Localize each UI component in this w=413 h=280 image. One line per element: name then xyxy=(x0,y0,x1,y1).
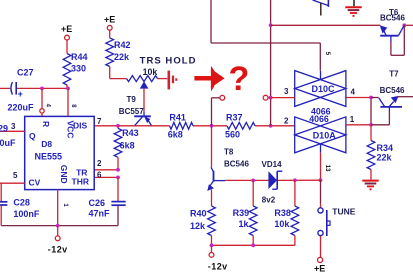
svg-text:22k: 22k xyxy=(377,153,393,163)
svg-text:BC546: BC546 xyxy=(380,86,405,95)
svg-text:4: 4 xyxy=(351,87,356,96)
svg-text:13: 13 xyxy=(324,165,330,172)
svg-text:BC557: BC557 xyxy=(119,107,144,116)
svg-text:Q: Q xyxy=(29,131,36,141)
svg-text:T9: T9 xyxy=(127,95,137,104)
svg-text:TUNE: TUNE xyxy=(332,207,355,217)
svg-text:+E: +E xyxy=(61,24,72,34)
svg-text:R38: R38 xyxy=(274,208,291,218)
svg-text:6: 6 xyxy=(97,170,102,179)
svg-text:R43: R43 xyxy=(122,128,139,138)
svg-text:-12v: -12v xyxy=(208,262,228,272)
svg-text:330: 330 xyxy=(71,64,86,74)
svg-text:220uF: 220uF xyxy=(0,138,16,148)
svg-text:100nF: 100nF xyxy=(13,209,40,219)
svg-text:R39: R39 xyxy=(233,208,250,218)
svg-text:BC546: BC546 xyxy=(224,160,249,169)
svg-text:R40: R40 xyxy=(190,209,207,219)
svg-text:R42: R42 xyxy=(114,40,131,50)
svg-text:THR: THR xyxy=(72,176,89,186)
svg-text:+E: +E xyxy=(104,15,115,25)
svg-text:C27: C27 xyxy=(17,68,34,78)
svg-text:C26: C26 xyxy=(89,198,106,208)
svg-text:10k: 10k xyxy=(143,67,158,77)
svg-text:BC546: BC546 xyxy=(380,14,405,23)
svg-text:C28: C28 xyxy=(13,198,30,208)
svg-text:47nF: 47nF xyxy=(89,209,111,219)
svg-text:CV: CV xyxy=(29,177,41,187)
svg-text:6k8: 6k8 xyxy=(120,140,135,150)
svg-text:R37: R37 xyxy=(226,112,243,122)
svg-text:D8: D8 xyxy=(41,139,52,149)
svg-text:R44: R44 xyxy=(71,52,88,62)
svg-text:12k: 12k xyxy=(190,221,206,231)
svg-text:5: 5 xyxy=(324,52,330,56)
svg-text:TRS HOLD: TRS HOLD xyxy=(140,56,197,67)
svg-text:D10C: D10C xyxy=(312,84,336,94)
svg-text:2: 2 xyxy=(97,159,102,168)
svg-text:+E: +E xyxy=(314,264,325,274)
svg-text:6k8: 6k8 xyxy=(168,129,183,139)
svg-text:T7: T7 xyxy=(389,69,399,78)
svg-text:3: 3 xyxy=(284,87,289,96)
svg-text:4: 4 xyxy=(45,104,51,108)
svg-text:R: R xyxy=(41,121,51,127)
svg-text:560: 560 xyxy=(225,130,240,140)
svg-text:22k: 22k xyxy=(114,52,130,62)
svg-text:220uF: 220uF xyxy=(8,103,35,113)
svg-text:GND: GND xyxy=(59,165,69,184)
svg-text:?: ? xyxy=(229,60,250,98)
svg-text:5: 5 xyxy=(13,171,18,180)
svg-text:1: 1 xyxy=(62,203,68,207)
svg-text:8v2: 8v2 xyxy=(262,195,276,204)
svg-text:7: 7 xyxy=(97,117,102,126)
svg-text:DIS: DIS xyxy=(73,120,88,130)
svg-text:T8: T8 xyxy=(224,148,234,157)
svg-text:-12v: -12v xyxy=(48,244,68,254)
svg-text:R41: R41 xyxy=(169,112,186,122)
svg-text:+: + xyxy=(18,89,23,99)
svg-text:NE555: NE555 xyxy=(35,152,63,162)
svg-text:C29: C29 xyxy=(0,123,8,133)
svg-text:10k: 10k xyxy=(274,219,290,229)
svg-text:VD14: VD14 xyxy=(262,160,283,169)
svg-text:1k: 1k xyxy=(239,219,250,229)
svg-text:8: 8 xyxy=(70,104,76,108)
svg-text:3: 3 xyxy=(11,122,16,131)
svg-text:D10A: D10A xyxy=(313,131,337,141)
svg-text:2: 2 xyxy=(284,117,289,126)
svg-text:1: 1 xyxy=(350,115,355,124)
